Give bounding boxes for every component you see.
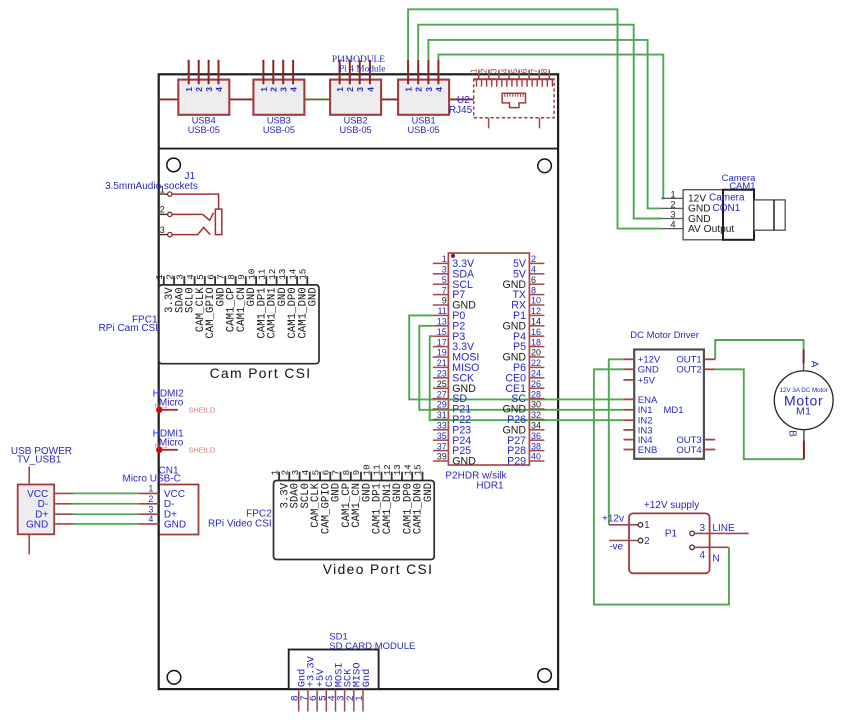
svg-text:+12V supply: +12V supply bbox=[644, 500, 699, 511]
svg-text:2: 2 bbox=[345, 87, 355, 92]
svg-text:36: 36 bbox=[531, 431, 541, 441]
svg-text:A: A bbox=[809, 361, 820, 368]
svg-text:28: 28 bbox=[531, 389, 541, 399]
svg-text:Cam Port CSI: Cam Port CSI bbox=[210, 366, 312, 381]
svg-text:40: 40 bbox=[531, 452, 541, 462]
svg-text:Camera: Camera bbox=[709, 192, 745, 203]
svg-text:9: 9 bbox=[442, 296, 447, 306]
svg-text:1: 1 bbox=[335, 87, 345, 92]
svg-text:13: 13 bbox=[437, 317, 447, 327]
svg-text:14: 14 bbox=[531, 317, 541, 327]
svg-text:P1: P1 bbox=[665, 529, 678, 540]
svg-text:4: 4 bbox=[289, 87, 299, 92]
svg-text:6: 6 bbox=[531, 275, 536, 285]
svg-text:4: 4 bbox=[531, 265, 536, 275]
svg-text:2: 2 bbox=[531, 254, 536, 264]
svg-text:GND: GND bbox=[638, 365, 659, 376]
svg-text:ENB: ENB bbox=[638, 445, 658, 456]
svg-text:USB-05: USB-05 bbox=[263, 125, 295, 135]
svg-text:M1: M1 bbox=[796, 406, 811, 418]
svg-text:OUT2: OUT2 bbox=[676, 365, 701, 376]
svg-text:27: 27 bbox=[437, 389, 447, 399]
svg-text:VCC: VCC bbox=[164, 489, 185, 500]
svg-text:OUT4: OUT4 bbox=[676, 445, 701, 456]
svg-text:ENA: ENA bbox=[638, 395, 658, 406]
svg-text:TV_USB1: TV_USB1 bbox=[17, 454, 62, 465]
svg-text:1: 1 bbox=[670, 189, 675, 199]
svg-text:4: 4 bbox=[670, 220, 675, 230]
svg-text:26: 26 bbox=[531, 379, 541, 389]
svg-text:3: 3 bbox=[160, 225, 165, 235]
svg-text:19: 19 bbox=[437, 348, 447, 358]
svg-text:+12v: +12v bbox=[602, 514, 624, 525]
svg-text:1: 1 bbox=[644, 520, 650, 531]
svg-text:P29: P29 bbox=[507, 456, 526, 468]
svg-text:17: 17 bbox=[437, 337, 447, 347]
svg-text:3: 3 bbox=[204, 87, 214, 92]
svg-text:15: 15 bbox=[413, 464, 424, 475]
svg-text:MD1: MD1 bbox=[664, 405, 684, 416]
svg-text:2: 2 bbox=[269, 87, 279, 92]
svg-text:VCC: VCC bbox=[27, 489, 48, 500]
svg-text:5: 5 bbox=[509, 68, 519, 73]
svg-text:CAM1: CAM1 bbox=[729, 181, 755, 192]
svg-text:USB-05: USB-05 bbox=[340, 125, 372, 135]
svg-text:8: 8 bbox=[539, 68, 549, 73]
svg-text:1: 1 bbox=[404, 87, 414, 92]
svg-text:7: 7 bbox=[529, 68, 539, 73]
svg-text:RPi Cam CSI: RPi Cam CSI bbox=[99, 323, 158, 334]
svg-text:30: 30 bbox=[531, 400, 541, 410]
svg-text:SHEILD: SHEILD bbox=[188, 405, 216, 414]
svg-text:32: 32 bbox=[531, 410, 541, 420]
svg-text:2: 2 bbox=[644, 536, 650, 547]
svg-text:31: 31 bbox=[437, 410, 447, 420]
svg-text:25: 25 bbox=[437, 379, 447, 389]
svg-text:4: 4 bbox=[434, 87, 444, 92]
svg-text:Pi 4 Module: Pi 4 Module bbox=[339, 64, 385, 74]
svg-text:B: B bbox=[787, 430, 798, 437]
svg-text:USB-05: USB-05 bbox=[188, 125, 220, 135]
svg-text:3: 3 bbox=[148, 504, 153, 514]
svg-text:3: 3 bbox=[489, 68, 499, 73]
svg-text:D-: D- bbox=[38, 499, 49, 510]
svg-text:GND: GND bbox=[423, 483, 435, 502]
svg-text:1: 1 bbox=[469, 68, 479, 73]
svg-text:4: 4 bbox=[499, 68, 509, 73]
svg-text:33: 33 bbox=[437, 421, 447, 431]
svg-text:11: 11 bbox=[437, 306, 446, 316]
svg-text:SHEILD: SHEILD bbox=[188, 445, 216, 454]
svg-text:HDR1: HDR1 bbox=[476, 481, 504, 492]
svg-text:6: 6 bbox=[519, 68, 529, 73]
svg-text:AV Output: AV Output bbox=[688, 224, 734, 235]
svg-text:3: 3 bbox=[700, 523, 706, 534]
svg-text:15: 15 bbox=[437, 327, 447, 337]
svg-text:+5V: +5V bbox=[638, 375, 656, 386]
svg-text:39: 39 bbox=[437, 452, 447, 462]
svg-text:IN1: IN1 bbox=[638, 405, 653, 416]
svg-text:3: 3 bbox=[442, 265, 447, 275]
svg-text:29: 29 bbox=[437, 400, 447, 410]
svg-text:2: 2 bbox=[194, 87, 204, 92]
svg-text:4: 4 bbox=[148, 514, 153, 524]
svg-text:RJ45: RJ45 bbox=[449, 105, 473, 116]
svg-text:22: 22 bbox=[531, 358, 541, 368]
svg-text:1: 1 bbox=[355, 695, 366, 701]
svg-text:4: 4 bbox=[214, 87, 224, 92]
svg-text:2: 2 bbox=[670, 199, 675, 209]
svg-text:GND: GND bbox=[452, 456, 476, 468]
svg-text:10: 10 bbox=[531, 296, 541, 306]
svg-text:N: N bbox=[712, 554, 719, 565]
svg-text:CON1: CON1 bbox=[713, 203, 741, 214]
svg-text:PI4MODULE: PI4MODULE bbox=[332, 55, 385, 65]
svg-text:37: 37 bbox=[437, 441, 447, 451]
svg-text:-ve: -ve bbox=[609, 541, 623, 552]
svg-text:DC Motor Driver: DC Motor Driver bbox=[630, 330, 699, 341]
svg-text:USB-05: USB-05 bbox=[408, 125, 440, 135]
svg-text:21: 21 bbox=[437, 358, 447, 368]
svg-text:4: 4 bbox=[365, 87, 375, 92]
svg-text:23: 23 bbox=[437, 369, 447, 379]
svg-text:GND: GND bbox=[308, 287, 320, 306]
svg-text:20: 20 bbox=[531, 348, 541, 358]
svg-text:15: 15 bbox=[298, 269, 309, 280]
svg-text:5: 5 bbox=[442, 275, 447, 285]
svg-text:3: 3 bbox=[279, 87, 289, 92]
svg-text:1: 1 bbox=[442, 254, 447, 264]
svg-text:GND: GND bbox=[164, 519, 186, 530]
svg-text:16: 16 bbox=[531, 327, 541, 337]
svg-text:8: 8 bbox=[531, 285, 536, 295]
svg-text:1: 1 bbox=[160, 184, 165, 194]
svg-text:38: 38 bbox=[531, 441, 541, 451]
svg-text:D-: D- bbox=[164, 499, 175, 510]
svg-text:RPi Video CSI: RPi Video CSI bbox=[208, 519, 272, 530]
svg-text:3.5mmAudio sockets: 3.5mmAudio sockets bbox=[105, 181, 198, 192]
svg-text:2: 2 bbox=[479, 68, 489, 73]
svg-text:Gnd: Gnd bbox=[361, 669, 373, 688]
svg-text:18: 18 bbox=[531, 337, 541, 347]
svg-text:7: 7 bbox=[442, 285, 447, 295]
svg-text:35: 35 bbox=[437, 431, 447, 441]
svg-text:1: 1 bbox=[259, 87, 269, 92]
svg-text:24: 24 bbox=[531, 369, 541, 379]
svg-text:2: 2 bbox=[160, 205, 165, 215]
svg-text:1: 1 bbox=[148, 484, 153, 494]
svg-text:4: 4 bbox=[700, 550, 706, 561]
svg-text:GND: GND bbox=[26, 519, 48, 530]
svg-text:1: 1 bbox=[184, 87, 194, 92]
svg-text:12: 12 bbox=[531, 306, 541, 316]
svg-text:LINE: LINE bbox=[712, 523, 735, 534]
svg-text:3: 3 bbox=[670, 210, 675, 220]
svg-text:3: 3 bbox=[424, 87, 434, 92]
svg-text:Video Port CSI: Video Port CSI bbox=[323, 562, 434, 577]
svg-text:2: 2 bbox=[148, 494, 153, 504]
svg-text:3: 3 bbox=[355, 87, 365, 92]
svg-text:2: 2 bbox=[414, 87, 424, 92]
svg-text:34: 34 bbox=[531, 421, 541, 431]
